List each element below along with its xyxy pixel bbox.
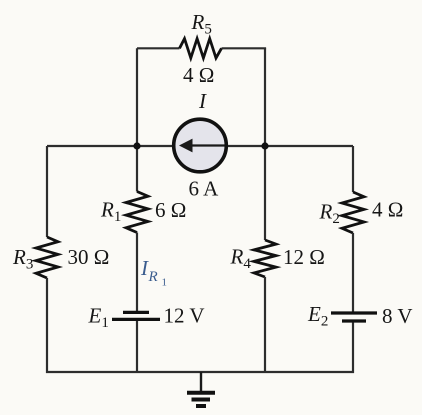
- wire right rail below E2: [352, 323, 354, 374]
- current source arrow: [191, 144, 225, 146]
- wire left rail bottom: [46, 278, 48, 373]
- wire vertical x265 bottom: [264, 277, 266, 372]
- ground bar 1: [187, 391, 215, 395]
- battery E2 plate short (bottom): [342, 319, 366, 322]
- svg-text:R: R: [148, 269, 158, 285]
- wire vertical x137 between R1 and E1: [136, 233, 138, 312]
- wire right rail top (x353): [352, 146, 354, 192]
- svg-text:4 Ω: 4 Ω: [372, 198, 403, 222]
- ground bar 3: [196, 404, 206, 408]
- wire vertical x137 below E1: [136, 321, 138, 372]
- svg-text:8 V: 8 V: [382, 304, 413, 328]
- node junction right: [261, 142, 268, 149]
- node junction left: [133, 142, 140, 149]
- wire top right (R5 loop): [222, 47, 267, 49]
- wire top left (R5 loop): [137, 47, 180, 49]
- resistor R5: [180, 39, 222, 58]
- svg-text:30 Ω: 30 Ω: [68, 245, 110, 269]
- wire middle right: [227, 145, 353, 147]
- wire vertical x137 top: [136, 48, 138, 191]
- svg-text:6 A: 6 A: [189, 177, 220, 201]
- battery E1 plate short (top): [123, 311, 149, 314]
- svg-text:I: I: [198, 89, 207, 113]
- resistor R3: [36, 237, 58, 278]
- wire bottom: [46, 371, 354, 373]
- resistor R1: [126, 192, 148, 233]
- svg-text:12 Ω: 12 Ω: [283, 245, 325, 269]
- svg-text:1: 1: [162, 277, 168, 289]
- svg-text:6 Ω: 6 Ω: [155, 198, 186, 222]
- battery E2 plate long (top): [331, 311, 377, 314]
- wire left rail top (x47): [46, 146, 48, 237]
- resistor R4: [254, 240, 276, 277]
- wire right rail between R2 and E2: [352, 233, 354, 312]
- resistor R2: [342, 192, 364, 233]
- current source U1: [174, 119, 227, 172]
- ground bar 2: [192, 398, 211, 402]
- battery E1 plate long (bottom): [112, 318, 160, 321]
- wire vertical x265 top: [264, 48, 266, 240]
- svg-text:12 V: 12 V: [164, 304, 205, 328]
- svg-text:4 Ω: 4 Ω: [183, 63, 214, 87]
- wire middle left: [47, 145, 173, 147]
- ground stub wire: [200, 372, 202, 391]
